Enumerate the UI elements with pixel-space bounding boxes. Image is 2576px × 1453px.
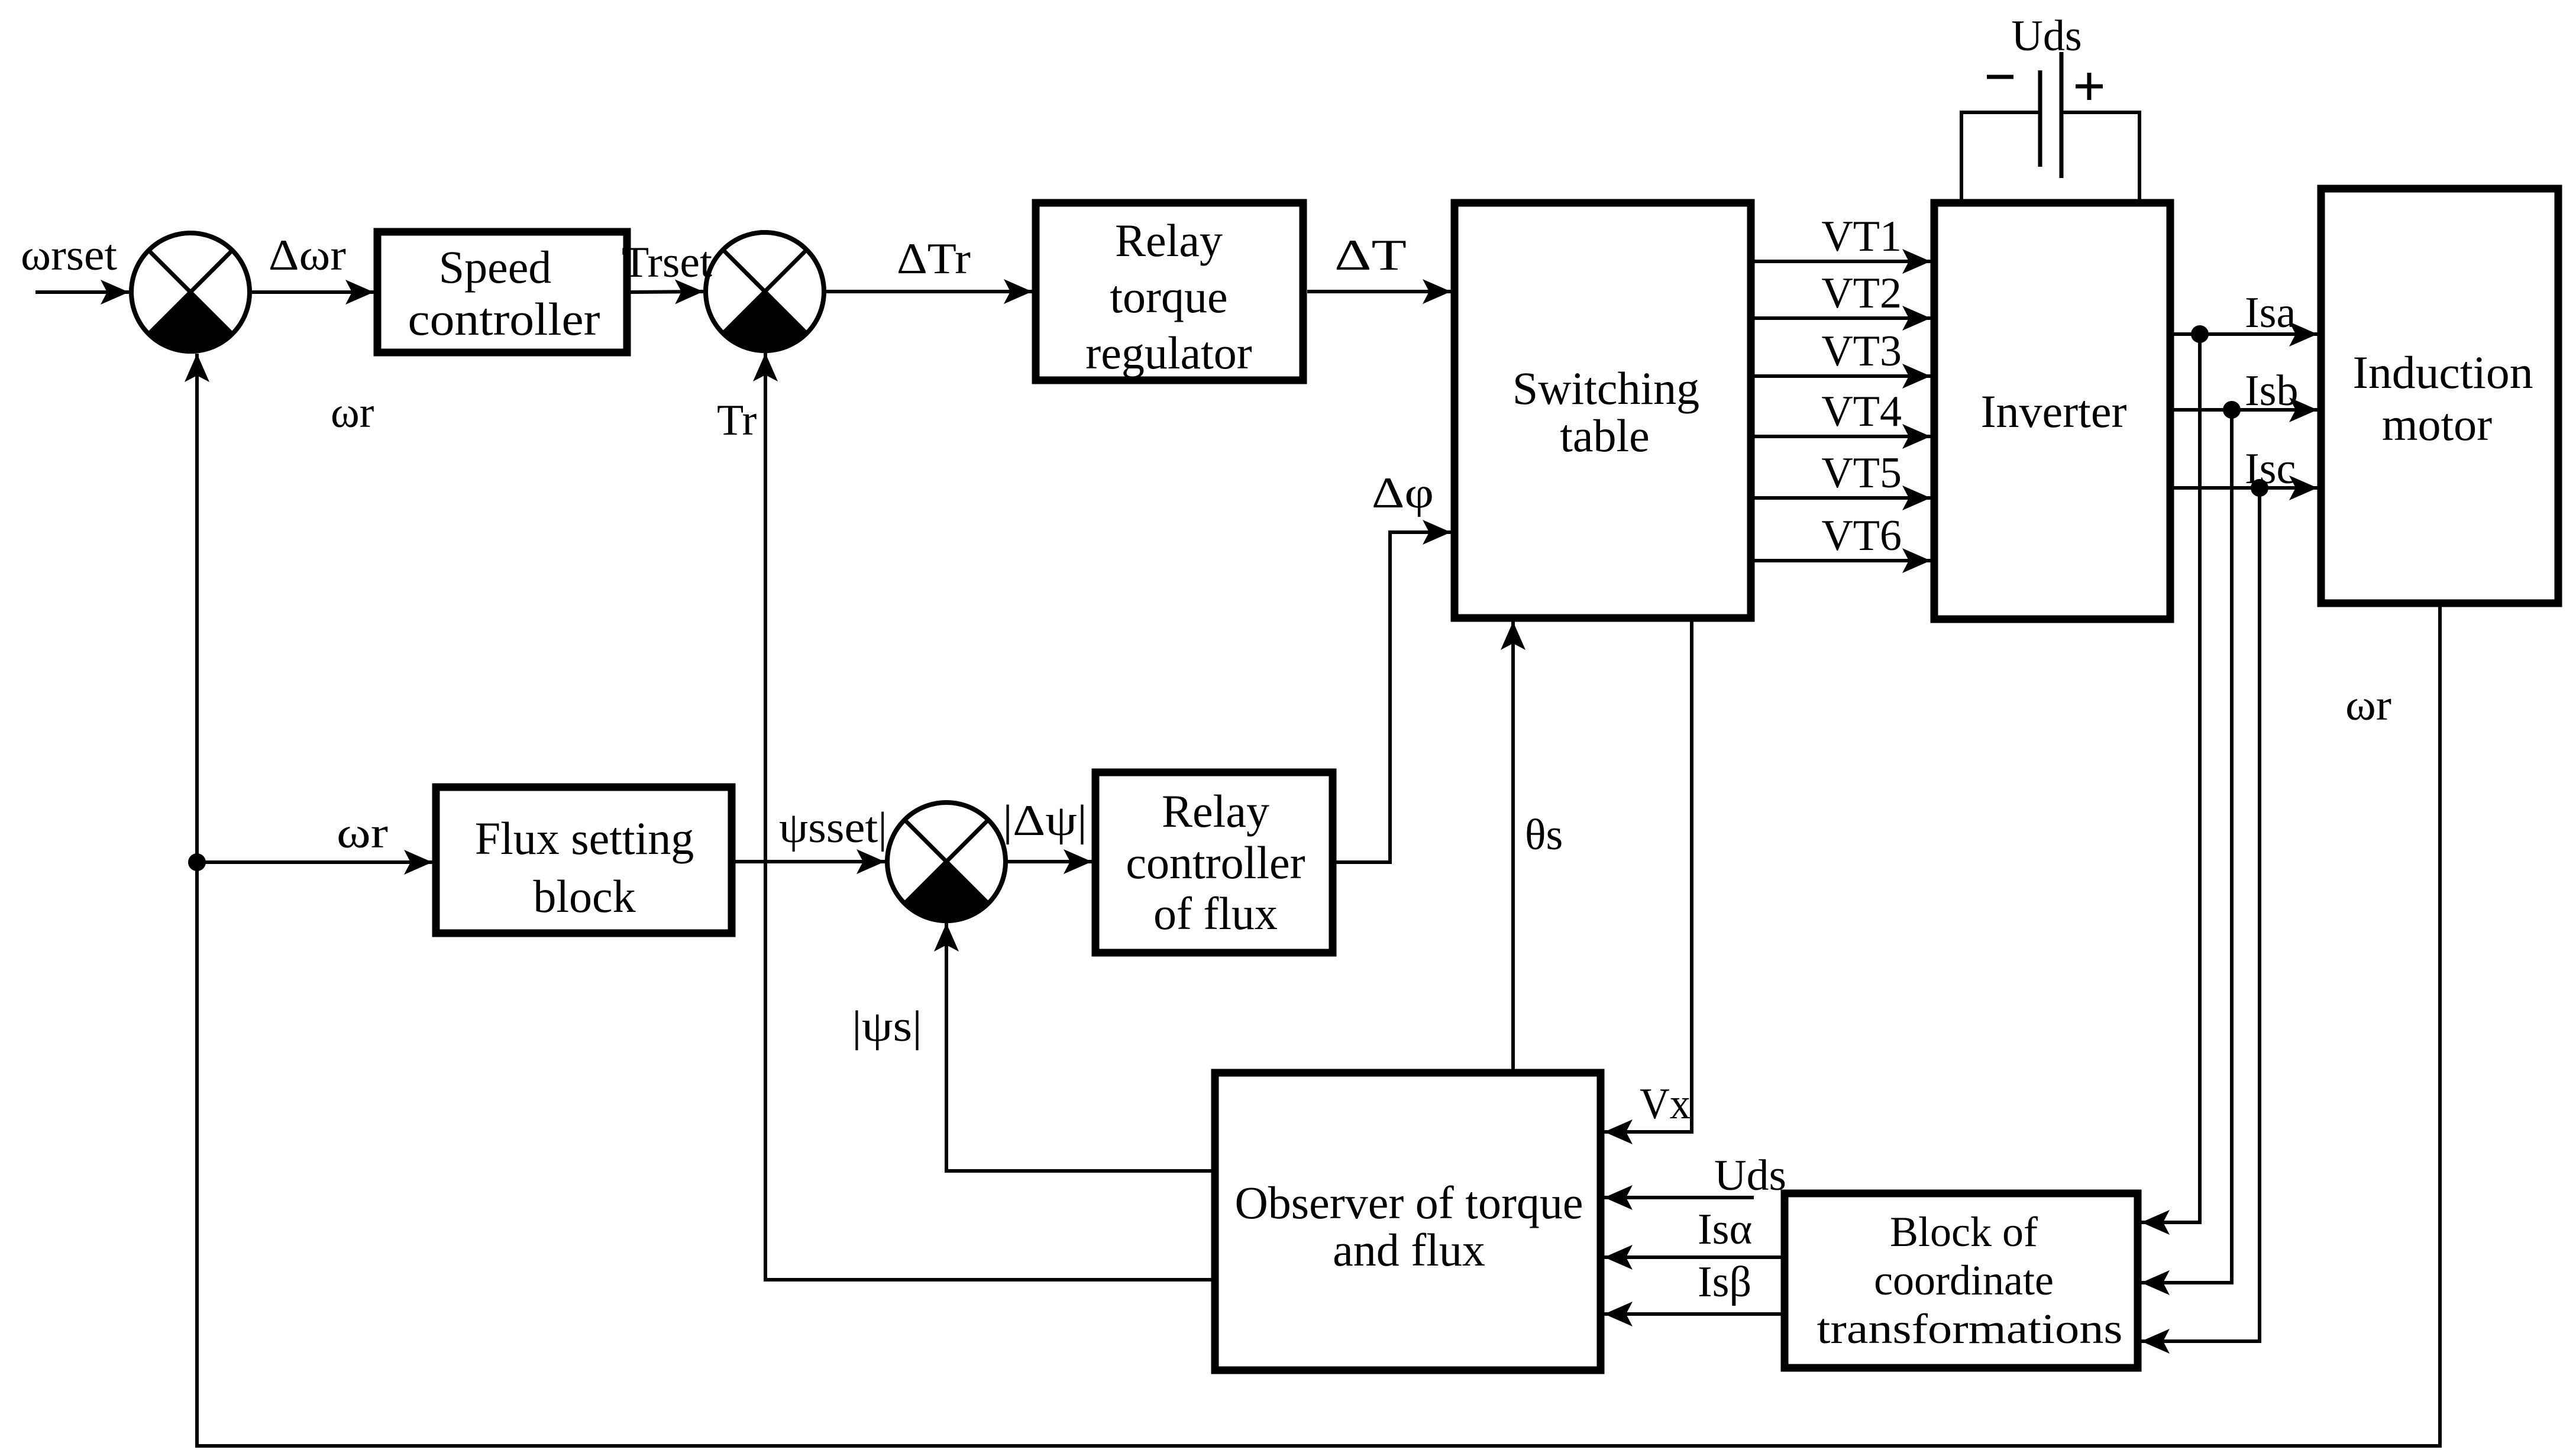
svg-text:controller: controller	[408, 293, 600, 345]
svg-text:Uds: Uds	[2011, 12, 2082, 60]
svg-text:of flux: of flux	[1153, 888, 1278, 939]
svg-text:regulator: regulator	[1085, 327, 1252, 378]
svg-text:ψsset|: ψsset|	[779, 804, 887, 852]
svg-text:Flux setting: Flux setting	[475, 813, 694, 864]
svg-text:Relay: Relay	[1115, 215, 1223, 266]
svg-text:ΔT: ΔT	[1334, 231, 1407, 280]
svg-text:VT5: VT5	[1821, 449, 1902, 497]
svg-text:ωr: ωr	[331, 389, 374, 437]
svg-text:Relay: Relay	[1162, 785, 1269, 837]
svg-text:|ψs|: |ψs|	[852, 1002, 922, 1051]
svg-text:Vx: Vx	[1640, 1080, 1691, 1128]
svg-text:Switching: Switching	[1512, 363, 1699, 414]
svg-text:transformations: transformations	[1817, 1305, 2123, 1352]
svg-text:block: block	[533, 870, 635, 922]
svg-text:Observer of torque: Observer of torque	[1234, 1177, 1583, 1228]
svg-text:ΔTr: ΔTr	[897, 235, 971, 283]
svg-text:controller: controller	[1126, 837, 1305, 888]
svg-text:Induction: Induction	[2353, 347, 2533, 398]
svg-text:Isb: Isb	[2245, 367, 2298, 415]
svg-text:VT3: VT3	[1821, 327, 1902, 376]
svg-text:Isα: Isα	[1698, 1205, 1752, 1254]
svg-text:VT2: VT2	[1821, 269, 1902, 318]
svg-text:Δφ: Δφ	[1372, 469, 1434, 517]
svg-text:Speed: Speed	[439, 241, 552, 293]
svg-text:Inverter: Inverter	[1981, 386, 2127, 437]
svg-text:VT1: VT1	[1821, 212, 1902, 261]
svg-text:Block of: Block of	[1890, 1208, 2038, 1255]
svg-text:Isβ: Isβ	[1698, 1258, 1751, 1306]
svg-text:ωr: ωr	[337, 809, 388, 857]
svg-text:ωr: ωr	[2345, 681, 2391, 730]
svg-text:θs: θs	[1525, 811, 1563, 859]
svg-text:motor: motor	[2382, 399, 2492, 450]
svg-text:Isa: Isa	[2245, 289, 2296, 337]
svg-text:table: table	[1560, 410, 1650, 461]
svg-text:|Δψ|: |Δψ|	[1003, 797, 1087, 845]
svg-text:Δωr: Δωr	[269, 231, 346, 280]
svg-text:ωrset: ωrset	[21, 231, 117, 280]
svg-text:coordinate: coordinate	[1874, 1257, 2054, 1304]
svg-text:Trset: Trset	[622, 238, 712, 287]
svg-text:and flux: and flux	[1333, 1224, 1485, 1276]
svg-text:Tr: Tr	[717, 396, 757, 445]
svg-text:Uds: Uds	[1714, 1151, 1786, 1200]
svg-text:VT6: VT6	[1821, 512, 1902, 560]
svg-text:torque: torque	[1110, 271, 1227, 322]
svg-text:VT4: VT4	[1821, 387, 1902, 436]
svg-text:Isc: Isc	[2245, 445, 2296, 493]
